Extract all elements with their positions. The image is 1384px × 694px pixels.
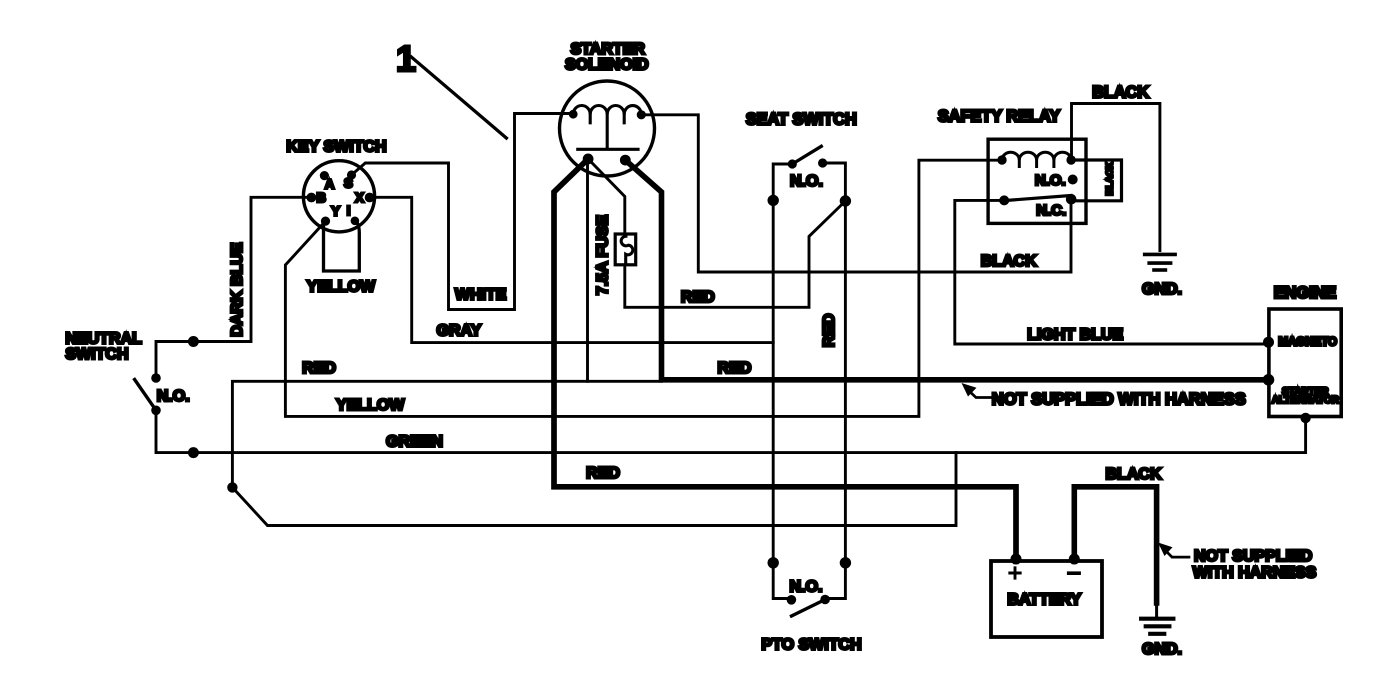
seat switch terminal right — [840, 195, 851, 206]
wire thin: solenoid left terminal down to red bus — [586, 159, 589, 381]
seat switch contact left — [788, 159, 797, 168]
svg-text:RED: RED — [821, 314, 838, 348]
wire yellow: key switch Y to safety relay coil left — [285, 160, 1002, 416]
svg-text:N.O.: N.O. — [157, 388, 190, 405]
svg-text:GRAY: GRAY — [437, 323, 482, 340]
relay coil tail 1 — [1018, 160, 1021, 167]
neutral switch blade — [135, 380, 156, 411]
battery plus sign — [1010, 568, 1020, 578]
wire red branch: green tap up to red bus — [232, 381, 956, 525]
ground symbol battery — [1141, 619, 1173, 634]
key switch pin S — [347, 170, 356, 179]
svg-text:BLACK: BLACK — [981, 253, 1037, 270]
seat switch blade — [792, 146, 821, 164]
wire black jumper: relay coil right to N.C. contact — [1071, 160, 1121, 201]
solenoid coil tail left — [589, 114, 592, 123]
svg-text:YELLOW: YELLOW — [336, 397, 405, 414]
solenoid contact bar — [578, 148, 638, 151]
svg-text:ALTERNATOR: ALTERNATOR — [1272, 395, 1340, 406]
key switch body circle — [303, 161, 374, 232]
svg-text:SEAT SWITCH: SEAT SWITCH — [746, 111, 857, 129]
svg-text:S: S — [344, 176, 353, 191]
engine bottom terminal — [1300, 413, 1310, 423]
PTO terminal left — [768, 557, 779, 568]
solenoid coil terminal left — [569, 110, 578, 119]
relay blade — [1004, 196, 1071, 201]
wire dark blue: key switch B to neutral switch top — [156, 197, 311, 377]
wire black: relay coil right up to ground — [1072, 104, 1160, 251]
battery minus sign — [1069, 571, 1079, 575]
relay box — [988, 139, 1086, 223]
svg-text:NOT SUPPLIED WITH HARNESS: NOT SUPPLIED WITH HARNESS — [992, 391, 1246, 409]
wire green: neutral switch bottom to engine bottom terminal — [156, 410, 1306, 452]
svg-text:GREEN: GREEN — [386, 434, 443, 451]
svg-text:NOT SUPPLIED: NOT SUPPLIED — [1194, 548, 1312, 565]
PTO contact right — [820, 595, 830, 605]
key switch — [303, 161, 374, 232]
wire thick black: battery minus to ground — [1074, 487, 1156, 603]
svg-text:RED: RED — [718, 360, 752, 377]
relay coil tail 2 — [1035, 160, 1038, 167]
solenoid main terminal left — [583, 154, 594, 165]
svg-text:X: X — [355, 190, 364, 205]
svg-text:SWITCH: SWITCH — [65, 346, 128, 363]
solenoid coil tail right — [623, 114, 626, 123]
relay coil tail 3 — [1052, 160, 1055, 167]
starter solenoid — [560, 81, 655, 176]
svg-text:DARK BLUE: DARK BLUE — [229, 242, 246, 337]
svg-text:B: B — [317, 190, 326, 205]
svg-text:WHITE: WHITE — [455, 287, 507, 304]
battery terminal dot minus — [1069, 554, 1080, 565]
seat switch contact right — [818, 158, 827, 167]
svg-text:1: 1 — [396, 38, 416, 79]
svg-text:N.O.: N.O. — [790, 579, 823, 596]
node neutral switch bottom terminal — [188, 447, 199, 458]
note arrow 2: battery ground not supplied — [1158, 543, 1189, 558]
svg-text:KEY SWITCH: KEY SWITCH — [286, 138, 386, 155]
relay N.O. contact — [1068, 175, 1078, 185]
svg-text:BLACK: BLACK — [1105, 162, 1116, 195]
wire light blue: relay common to engine magneto — [955, 200, 1269, 344]
svg-text:BLACK: BLACK — [1092, 84, 1149, 102]
relay N.C. contact — [1066, 194, 1077, 205]
relay coil terminal right — [1066, 155, 1075, 164]
wire red: fuse bottom to seat switch right terminal — [625, 201, 846, 307]
wire thick red: solenoid left terminal to battery plus — [554, 159, 1016, 561]
key switch pin X — [365, 193, 375, 203]
wire gray: key switch X to seat switch left — [370, 197, 774, 342]
svg-text:I: I — [347, 203, 351, 218]
note arrow 1: not supplied with harness — [962, 383, 992, 398]
solenoid coil — [573, 106, 641, 115]
wire thin stub to battery ground — [1155, 603, 1158, 617]
svg-text:LIGHT BLUE: LIGHT BLUE — [1027, 327, 1123, 344]
svg-text:BLACK: BLACK — [1106, 466, 1162, 483]
svg-text:A: A — [325, 176, 335, 191]
wire white: key switch S to starter solenoid coil left — [352, 114, 574, 310]
relay coil terminal left — [997, 155, 1006, 164]
svg-text:STARTER: STARTER — [571, 41, 646, 58]
key switch pin B — [307, 193, 317, 203]
wire thick red: solenoid right terminal to engine starter — [625, 160, 1268, 380]
wire yellow jumper loop between Y and I pins — [324, 221, 360, 271]
svg-text:ENGINE: ENGINE — [1274, 284, 1337, 302]
neutral switch contact bottom — [151, 406, 161, 416]
svg-text:Y: Y — [331, 203, 340, 218]
battery terminal dot plus — [1011, 554, 1022, 565]
wire black: solenoid coil right to relay N.C. — [641, 115, 1071, 272]
junction dot on red branch — [227, 482, 237, 492]
relay coil — [1002, 152, 1071, 160]
seat switch terminal left — [768, 195, 779, 206]
PTO switch — [768, 557, 852, 616]
wire: seat switch right leg down to PTO switch — [823, 163, 846, 599]
fuse 7.5A — [615, 234, 636, 265]
PTO terminal right — [840, 557, 851, 568]
solenoid body circle — [560, 81, 655, 176]
svg-text:PTO SWITCH: PTO SWITCH — [761, 637, 861, 654]
fuse element squiggle — [621, 236, 633, 264]
svg-text:N.C.: N.C. — [1036, 202, 1066, 219]
wire: seat switch left leg down to PTO switch — [773, 164, 792, 599]
svg-text:GND.: GND. — [1142, 641, 1182, 658]
svg-text:N.O.: N.O. — [1035, 172, 1066, 189]
relay common contact — [999, 195, 1009, 205]
solenoid coil terminal right — [637, 110, 646, 119]
key switch pin A — [320, 171, 329, 180]
svg-text:SAFETY RELAY: SAFETY RELAY — [938, 108, 1060, 126]
svg-text:RED: RED — [586, 465, 620, 482]
PTO contact left — [787, 595, 797, 605]
svg-text:YELLOW: YELLOW — [307, 278, 376, 295]
battery — [991, 561, 1102, 637]
solenoid main terminal right — [620, 155, 631, 166]
solenoid plunger stem — [606, 114, 609, 148]
svg-text:RED: RED — [302, 360, 336, 377]
svg-text:RED: RED — [681, 289, 715, 306]
callout line for item 1 — [411, 57, 506, 138]
svg-text:7.5A FUSE: 7.5A FUSE — [594, 215, 611, 296]
seat switch — [768, 146, 852, 206]
wire: solenoid left terminal to fuse — [588, 159, 625, 235]
ground symbol relay — [1145, 254, 1175, 270]
engine magneto terminal — [1263, 337, 1274, 348]
neutral switch — [135, 373, 161, 415]
svg-text:N.O.: N.O. — [790, 173, 823, 190]
neutral switch contact top — [151, 373, 161, 383]
svg-text:BATTERY: BATTERY — [1007, 591, 1081, 608]
key switch pin Y — [321, 217, 330, 226]
node neutral switch top terminal — [188, 336, 199, 347]
svg-text:SOLENOID: SOLENOID — [565, 57, 649, 74]
engine starter alternator terminal — [1263, 374, 1275, 386]
svg-text:GND.: GND. — [1142, 281, 1182, 298]
safety relay — [988, 139, 1086, 223]
svg-text:MAGNETO: MAGNETO — [1278, 336, 1337, 348]
PTO blade — [792, 600, 826, 617]
engine box — [1263, 309, 1342, 423]
svg-text:WITH HARNESS: WITH HARNESS — [1193, 565, 1317, 582]
key switch pin I — [351, 217, 360, 226]
